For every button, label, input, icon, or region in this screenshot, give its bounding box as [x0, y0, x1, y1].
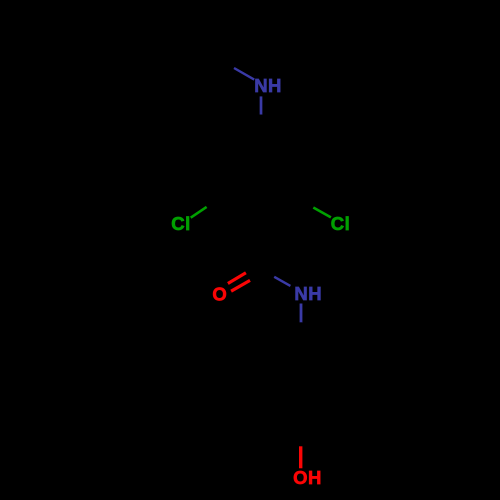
bond C-Cl left (chlorine half, green) [191, 207, 207, 218]
svg-text:NH: NH [254, 75, 282, 96]
bond N2-C lower ring (carbon half, invisible) [300, 322, 303, 351]
svg-text:OH: OH [293, 467, 322, 488]
bond C7-N2 amide (nitrogen half, blue) [274, 277, 290, 286]
bond C7-N2 amide (carbon half, invisible) [262, 269, 275, 276]
bond C-Cl right (chlorine half, green) [313, 208, 331, 218]
bond C-OH (carbon half, invisible) [299, 418, 302, 446]
bond N2-C lower ring (nitrogen half, blue vertical) [300, 304, 303, 323]
bond ring-C7 carbonyl (invisible) [261, 260, 262, 270]
svg-text:Cl: Cl [171, 213, 191, 234]
bond N1-C4 ring (nitrogen half, blue vertical) [260, 96, 263, 114]
svg-text:O: O [212, 283, 227, 304]
bond C-Cl left (carbon half, invisible) [207, 196, 223, 207]
bond CH3-N1 (nitrogen half, blue) [234, 68, 254, 80]
lower ring (carbon bonds, invisible) [272, 351, 330, 418]
double bond C7=O (oxygen half, red, two parallel lines) [228, 273, 246, 284]
bond C-Cl right (carbon half, invisible) [296, 198, 313, 208]
bond C-OH (oxygen half, red vertical) [299, 446, 302, 468]
bond N1-C4 ring (carbon half, invisible) [259, 115, 262, 144]
benzene ring (carbon bonds, invisible) [211, 144, 311, 260]
bond CH3-N1 (carbon half, invisible) [207, 51, 234, 69]
svg-text:NH: NH [294, 283, 322, 304]
svg-text:Cl: Cl [331, 213, 351, 234]
